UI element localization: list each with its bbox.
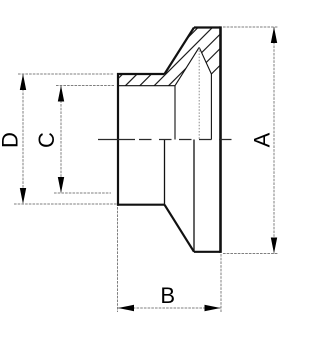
wire: lower cone edge <box>165 205 195 252</box>
wire: tube top edge <box>117 73 165 75</box>
hatch section lines <box>97 0 279 100</box>
dimension D line <box>22 74 24 204</box>
wire: weld seam left slope <box>175 47 199 85</box>
arrow A top <box>271 27 277 43</box>
arrow C bottom <box>58 177 64 193</box>
svg-text:C: C <box>34 132 59 148</box>
wire: upper cone edge <box>165 28 195 75</box>
arrow D bottom <box>20 188 26 204</box>
dimension A line <box>273 27 275 254</box>
dimension A extension top <box>223 26 278 28</box>
arrow A bottom <box>271 238 277 254</box>
dimension B extension right <box>220 254 222 312</box>
wire: flange hub circle edge (lower view) <box>193 140 195 252</box>
dimension D extension top <box>18 73 114 75</box>
dimension D extension bottom <box>14 203 117 205</box>
dimension B line <box>118 307 221 309</box>
arrow B right <box>205 305 221 311</box>
svg-text:A: A <box>249 132 274 147</box>
dimension C extension top <box>56 85 114 87</box>
svg-text:B: B <box>160 283 175 308</box>
wire: groove chamfer <box>211 65 220 74</box>
dimension C line <box>60 86 62 194</box>
svg-text:D: D <box>0 132 22 148</box>
wire: tube end vertical (section) <box>174 86 176 140</box>
dimension B extension left <box>117 207 119 312</box>
wire: weld seam right slope <box>199 47 211 74</box>
wire: groove inner vertical <box>210 74 212 140</box>
wire: flange bottom edge <box>194 251 221 253</box>
wire: flange top edge <box>194 26 221 28</box>
wire: tube bottom edge <box>117 204 165 206</box>
dimension C extension bottom <box>54 192 111 194</box>
wire: weld seam dotted vertical <box>198 47 200 139</box>
arrow C top <box>58 86 64 102</box>
wire: bore top thin line <box>118 85 175 87</box>
arrow B left <box>118 305 134 311</box>
arrow D top <box>20 74 26 90</box>
dimension A extension bottom <box>223 253 278 255</box>
wire: flange face edge <box>219 26 222 253</box>
wire: tube left edge <box>117 73 119 206</box>
wire: cone start circle edge (lower view) <box>164 140 166 205</box>
node centerline <box>98 139 135 141</box>
